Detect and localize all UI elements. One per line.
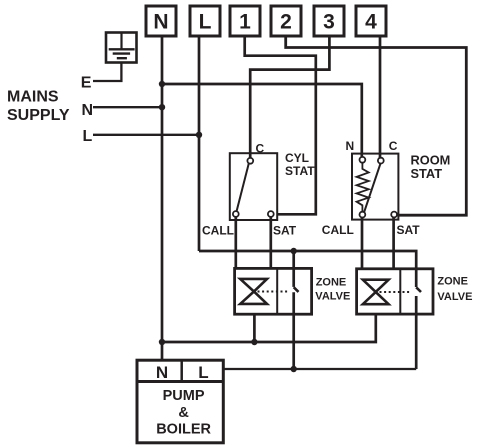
svg-text:VALVE: VALVE	[437, 291, 472, 303]
junction dot mains L	[196, 132, 202, 138]
wire valve1 motor to N rail	[253, 314, 256, 342]
svg-text:3: 3	[323, 11, 335, 34]
wire mains N	[93, 106, 162, 108]
wire terminal 2 to room stat sat	[286, 36, 467, 215]
svg-text:N: N	[346, 139, 355, 153]
label MAINS SUPPLY	[7, 88, 70, 124]
wire valve1 switch down	[292, 292, 295, 369]
wire valve2 switch down	[415, 296, 418, 369]
wire E to earth	[93, 63, 121, 82]
svg-text:E: E	[81, 75, 92, 92]
wire pump L rail	[223, 368, 417, 370]
wire terminal 1 to cyl stat sat	[245, 36, 316, 214]
svg-text:ZONE: ZONE	[437, 276, 468, 288]
terminal box 3	[314, 6, 344, 36]
terminal box N	[146, 6, 176, 36]
cyl stat U1	[230, 153, 277, 220]
svg-text:&: &	[178, 405, 189, 421]
svg-text:SAT: SAT	[397, 223, 421, 237]
svg-text:PUMP: PUMP	[163, 388, 205, 404]
svg-text:CALL: CALL	[202, 224, 234, 238]
svg-text:C: C	[256, 141, 265, 155]
svg-text:4: 4	[365, 11, 377, 34]
room stat U2	[352, 154, 398, 220]
wire L rail to zone valves	[199, 251, 416, 287]
svg-text:SAT: SAT	[273, 224, 297, 238]
terminal box L	[190, 6, 220, 36]
wire N feed to room stat	[162, 84, 362, 158]
label ZONE VALVE 2	[437, 276, 472, 304]
wire N rail	[162, 314, 376, 342]
svg-text:VALVE: VALVE	[315, 290, 350, 302]
wire N terminal down to pump	[161, 36, 164, 360]
wire cyl call down	[234, 217, 237, 268]
junction dot L rail valve1	[291, 248, 297, 254]
junction dot N rail valve1	[251, 339, 257, 345]
svg-text:STAT: STAT	[411, 166, 443, 181]
svg-text:2: 2	[280, 11, 292, 34]
wire room call down	[361, 218, 364, 269]
junction dot N rail at N wire	[159, 339, 165, 345]
svg-text:C: C	[389, 139, 398, 153]
svg-text:STAT: STAT	[285, 164, 315, 178]
svg-text:L: L	[83, 128, 93, 145]
wire terminal 3 to cyl stat C	[250, 36, 329, 158]
terminal box 1	[230, 6, 260, 36]
pump and boiler box	[137, 360, 223, 443]
terminal box 2	[271, 6, 301, 36]
wire terminal 4 to room stat C	[379, 36, 382, 158]
wire L branch zone valve 1 switch	[292, 251, 295, 287]
svg-text:1: 1	[239, 11, 251, 34]
earth symbol	[106, 33, 137, 63]
label ROOM STAT	[411, 153, 451, 181]
junction dot N feed	[159, 81, 165, 87]
wire mains L	[93, 134, 199, 136]
junction dot mains N	[159, 104, 165, 110]
svg-text:N: N	[153, 11, 168, 34]
wire room sat down	[392, 217, 395, 268]
terminal box 4	[356, 6, 386, 36]
junction dot pump L rail	[291, 366, 297, 372]
svg-text:CALL: CALL	[322, 223, 354, 237]
wire cyl sat down	[269, 217, 272, 268]
svg-text:CYL: CYL	[285, 151, 309, 165]
svg-text:BOILER: BOILER	[156, 421, 211, 437]
svg-text:L: L	[199, 11, 212, 34]
label ZONE VALVE 1	[315, 277, 350, 303]
svg-text:N: N	[82, 102, 94, 119]
zone valve 1	[235, 268, 312, 314]
svg-text:SUPPLY: SUPPLY	[7, 107, 70, 124]
svg-text:L: L	[198, 363, 208, 382]
svg-text:MAINS: MAINS	[7, 88, 59, 105]
wire L terminal down	[198, 36, 201, 251]
svg-text:ZONE: ZONE	[316, 277, 347, 289]
svg-text:N: N	[156, 363, 168, 382]
zone valve 2	[357, 269, 433, 314]
label CYL STAT	[285, 151, 315, 178]
